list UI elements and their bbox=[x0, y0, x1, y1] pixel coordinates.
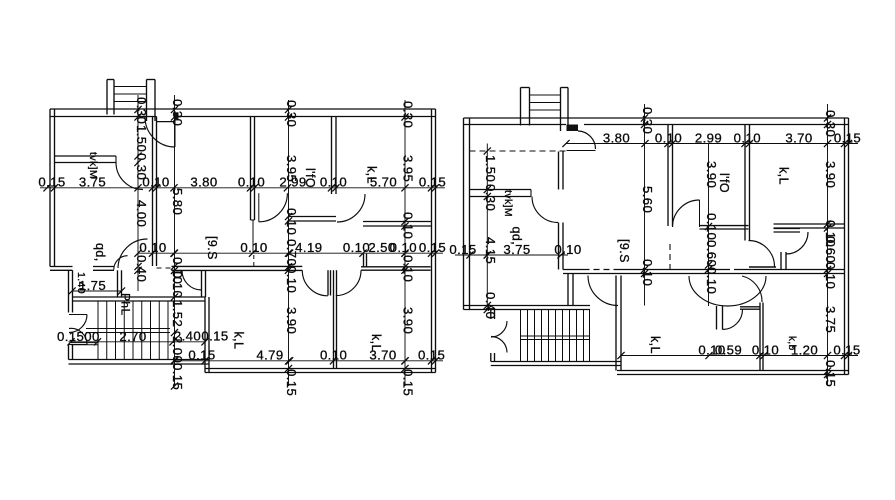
svg-text:0.40: 0.40 bbox=[134, 255, 149, 282]
right plan kL room door arc bbox=[588, 276, 618, 306]
right plan door jamb below stair bbox=[567, 125, 579, 132]
right plan bottom dim row line bbox=[621, 355, 858, 357]
right plan outer top wall bbox=[464, 117, 849, 119]
svg-text:qd,: qd, bbox=[510, 227, 524, 246]
left plan corridor top wall mid bbox=[289, 216, 337, 218]
svg-text:0.60: 0.60 bbox=[704, 240, 719, 267]
svg-text:3.70: 3.70 bbox=[785, 130, 812, 145]
svg-text:0.40: 0.40 bbox=[483, 292, 498, 319]
left plan bottom wall bbox=[205, 368, 436, 370]
svg-text:0.59: 0.59 bbox=[715, 342, 742, 357]
right plan dim col x=708 ticks bbox=[705, 223, 712, 230]
svg-text:0.30: 0.30 bbox=[483, 184, 498, 211]
right plan lfO door arc and leaf bbox=[749, 241, 775, 267]
right plan roof stair left post bbox=[520, 88, 522, 126]
svg-text:1.50: 1.50 bbox=[483, 155, 498, 182]
right plan entry french door upper arc bbox=[491, 321, 507, 337]
left plan hall-stair connector wall upper bbox=[201, 271, 203, 298]
svg-text:5.60: 5.60 bbox=[640, 186, 655, 213]
left plan single wall line x=253 bbox=[252, 220, 254, 253]
right plan bottom dim row ticks bbox=[617, 352, 624, 359]
left plan outer top wall bbox=[50, 108, 436, 110]
svg-text:0.10: 0.10 bbox=[704, 267, 719, 294]
left plan qd room door arc bbox=[114, 256, 128, 270]
left plan dim col x=288 line bbox=[288, 100, 290, 386]
svg-text:k,L: k,L bbox=[369, 334, 383, 352]
svg-text:0.70: 0.70 bbox=[284, 239, 299, 266]
right plan niche door arc bbox=[786, 232, 808, 254]
svg-text:0.10: 0.10 bbox=[238, 175, 265, 190]
right plan corridor wall upper line segments bbox=[563, 269, 584, 271]
right plan corridor dashed opening left bbox=[584, 269, 616, 271]
right plan entry french door lower arc bbox=[491, 337, 507, 353]
left plan dim col x=174 line bbox=[174, 95, 176, 386]
right plan interior wall x=670 bbox=[667, 125, 669, 227]
svg-text:0.1500: 0.1500 bbox=[57, 329, 100, 344]
svg-text:[9.S: [9.S bbox=[617, 239, 631, 263]
left plan stair dim row ticks bbox=[67, 338, 74, 345]
svg-text:3.95: 3.95 bbox=[284, 155, 299, 182]
left plan entry french door lower leaf arc bbox=[69, 344, 87, 346]
svg-text:tvk]M: tvk]M bbox=[87, 152, 99, 179]
svg-text:tvk]M: tvk]M bbox=[502, 190, 514, 217]
svg-text:5.80: 5.80 bbox=[170, 188, 185, 215]
left plan closet duct lines bbox=[363, 254, 365, 267]
right plan top dim row ticks bbox=[562, 140, 569, 147]
svg-text:1.52: 1.52 bbox=[170, 300, 185, 327]
left plan corridor bottom wall segments bbox=[172, 265, 303, 267]
left plan interior wall x=334 upper bbox=[331, 117, 333, 195]
svg-text:0.10: 0.10 bbox=[401, 212, 416, 239]
right plan dashed balcony line bbox=[470, 150, 567, 152]
right plan big double door arc bbox=[689, 276, 766, 306]
svg-text:0.10: 0.10 bbox=[343, 240, 370, 255]
right plan dim col x=708 line bbox=[708, 144, 710, 307]
left plan dim col x=138 ticks bbox=[134, 106, 141, 113]
left plan interior wall x=252 bbox=[250, 117, 252, 221]
svg-text:1.40: 1.40 bbox=[75, 272, 87, 294]
right plan niche wall bbox=[774, 228, 801, 230]
right plan left dim row line bbox=[455, 254, 568, 256]
left plan stair hall bottom wall bbox=[69, 359, 210, 361]
svg-text:0.10: 0.10 bbox=[320, 175, 347, 190]
left plan corridor top wall right bbox=[363, 221, 432, 223]
right plan porch bottom wall bbox=[491, 361, 621, 363]
svg-text:0.15: 0.15 bbox=[823, 360, 838, 387]
right plan staircase right stringer bbox=[589, 310, 591, 362]
svg-text:0.10: 0.10 bbox=[554, 242, 581, 257]
left plan staircase mid rails bbox=[86, 328, 170, 330]
right plan kL-left connector wall bbox=[615, 276, 617, 371]
left plan dim row2 ticks bbox=[134, 250, 141, 257]
left plan double door left leaf bbox=[327, 270, 329, 295]
svg-text:3.95: 3.95 bbox=[401, 155, 416, 182]
left plan outer left wall bbox=[49, 109, 51, 267]
right plan left dim row ticks bbox=[466, 251, 473, 258]
left plan stair hall top wall bbox=[73, 296, 206, 298]
svg-text:0.10: 0.10 bbox=[704, 213, 719, 240]
svg-text:0.15: 0.15 bbox=[419, 175, 446, 190]
right plan porch left wall lower bbox=[490, 353, 492, 362]
svg-text:0.10: 0.10 bbox=[139, 240, 166, 255]
svg-text:0.15: 0.15 bbox=[833, 342, 860, 357]
right plan wall y=306 segment bbox=[740, 306, 760, 308]
right plan interior wall x=747 bbox=[744, 125, 746, 241]
left plan entry french door upper leaf arc bbox=[69, 314, 87, 316]
left plan dashed line x=253.8 bbox=[253, 255, 255, 266]
left plan stair dim row line bbox=[69, 341, 206, 343]
right plan staircase treads bbox=[520, 310, 522, 362]
svg-text:3.90: 3.90 bbox=[823, 161, 838, 188]
left plan dim col x=174 ticks bbox=[171, 106, 178, 113]
svg-text:0.10: 0.10 bbox=[655, 130, 682, 145]
right plan outer left wall bbox=[463, 118, 465, 310]
svg-text:qd,: qd, bbox=[93, 243, 107, 262]
left plan tvk room wall bbox=[55, 155, 117, 157]
svg-text:3.80: 3.80 bbox=[190, 175, 217, 190]
left plan corridor-hall door arc bbox=[118, 239, 148, 268]
left plan hall door arc bbox=[182, 270, 202, 290]
svg-text:2.99: 2.99 bbox=[695, 130, 722, 145]
right plan bottom rooms divider wall bbox=[759, 303, 761, 371]
svg-text:0.15: 0.15 bbox=[170, 363, 185, 390]
svg-text:4.00: 4.00 bbox=[134, 200, 149, 227]
left plan dim col x=138 line bbox=[137, 95, 139, 291]
right plan dim col x=487 ticks bbox=[484, 147, 491, 154]
left plan entrance door leaf and arc bbox=[174, 117, 176, 147]
svg-text:0.15: 0.15 bbox=[38, 175, 65, 190]
left plan bottom dim row line bbox=[174, 360, 443, 362]
left plan porch left wall lower bbox=[68, 345, 70, 360]
right plan staircase mid rails bbox=[521, 335, 590, 337]
right plan dim col x=644 ticks bbox=[641, 114, 648, 121]
left plan bottom dim row ticks bbox=[170, 357, 177, 364]
svg-text:[9.S: [9.S bbox=[205, 236, 219, 260]
left plan corridor dashed wall segment bbox=[157, 267, 172, 269]
svg-text:k,b: k,b bbox=[786, 336, 797, 351]
svg-text:0.30: 0.30 bbox=[284, 100, 299, 127]
right plan kL bottom wall right segment bbox=[774, 223, 845, 225]
left plan dim row 1.75 ticks bbox=[68, 287, 75, 294]
left plan dim row1 line bbox=[40, 187, 445, 189]
left plan tvk room door arc bbox=[116, 163, 143, 190]
right plan roof stair rungs bbox=[530, 94, 561, 96]
svg-text:0.10: 0.10 bbox=[320, 348, 347, 363]
svg-text:0.15: 0.15 bbox=[449, 242, 476, 257]
svg-text:0.15: 0.15 bbox=[418, 348, 445, 363]
right plan dim col x=487 line bbox=[486, 144, 488, 310]
svg-text:3.75: 3.75 bbox=[823, 306, 838, 333]
left plan hall-stair connector wall lower bbox=[204, 297, 206, 373]
left plan entrance door sill bbox=[157, 121, 176, 123]
svg-text:k,L: k,L bbox=[232, 332, 246, 350]
right plan dim col x=827 ticks bbox=[824, 114, 831, 121]
left plan staircase treads bbox=[97, 301, 99, 360]
svg-text:l'fO: l'fO bbox=[717, 173, 731, 193]
left plan outer right wall bbox=[431, 109, 433, 373]
svg-text:0.60: 0.60 bbox=[823, 236, 838, 263]
right plan corridor dashed opening right bbox=[724, 269, 740, 271]
svg-text:0.15: 0.15 bbox=[401, 369, 416, 396]
left plan roof stair left post bbox=[106, 80, 108, 115]
left plan dim row 1.75 line bbox=[72, 290, 122, 292]
svg-text:0.10: 0.10 bbox=[284, 208, 299, 235]
svg-text:1.50: 1.50 bbox=[134, 125, 149, 152]
svg-text:4.79: 4.79 bbox=[256, 348, 283, 363]
svg-text:0.15: 0.15 bbox=[188, 348, 215, 363]
svg-text:0.30: 0.30 bbox=[170, 99, 185, 126]
svg-text:0.15: 0.15 bbox=[284, 369, 299, 396]
svg-text:0.10: 0.10 bbox=[401, 255, 416, 282]
svg-text:0.10: 0.10 bbox=[240, 240, 267, 255]
svg-text:3.90: 3.90 bbox=[401, 307, 416, 334]
svg-text:0.10: 0.10 bbox=[752, 342, 779, 357]
right plan dim col x=827 line bbox=[827, 104, 829, 386]
left plan entrance door jamb bbox=[174, 112, 178, 119]
svg-text:k,L: k,L bbox=[648, 336, 662, 354]
svg-text:l'fO: l'fO bbox=[303, 168, 317, 188]
right plan corridor wall lower line bbox=[563, 273, 845, 275]
right plan wall x=783 bbox=[780, 252, 782, 270]
svg-text:3.90: 3.90 bbox=[704, 161, 719, 188]
right plan extra door arc below corridor bbox=[742, 276, 762, 302]
svg-text:2.00: 2.00 bbox=[170, 336, 185, 363]
svg-text:0.10: 0.10 bbox=[390, 240, 417, 255]
svg-text:2.70: 2.70 bbox=[119, 329, 146, 344]
right plan door arc at stub bbox=[723, 310, 743, 330]
left plan dim col x=405 ticks bbox=[401, 113, 408, 120]
svg-text:0.30: 0.30 bbox=[134, 97, 149, 124]
svg-text:0.30: 0.30 bbox=[401, 101, 416, 128]
right plan dashed wall x=670 lower bbox=[669, 244, 671, 270]
right plan bottom wall bbox=[617, 370, 849, 372]
svg-text:PhL: PhL bbox=[119, 293, 133, 316]
right plan stair-bottom wall bbox=[464, 305, 591, 307]
right plan dim col x=644 line bbox=[644, 104, 646, 306]
svg-text:0.15: 0.15 bbox=[419, 240, 446, 255]
svg-text:0.30: 0.30 bbox=[640, 107, 655, 134]
svg-text:0.10: 0.10 bbox=[170, 271, 185, 298]
left plan dim col x=405 line bbox=[404, 100, 406, 386]
svg-text:0.15: 0.15 bbox=[201, 329, 228, 344]
svg-text:0.30: 0.30 bbox=[823, 110, 838, 137]
right plan top dim row line bbox=[566, 143, 858, 145]
right plan tvk room door arc bbox=[532, 197, 558, 223]
left plan door arc at wall x=334 bbox=[337, 194, 365, 222]
left plan dim row2 line bbox=[138, 252, 443, 254]
right plan outer right wall bbox=[844, 118, 846, 375]
left plan interior wall x=154 bbox=[152, 117, 154, 267]
left plan dim col x=288 ticks bbox=[285, 106, 292, 113]
right plan porch left wall upper bbox=[490, 310, 492, 320]
right plan tvk room right wall lower bbox=[558, 223, 560, 270]
left plan hall divider wall bbox=[117, 270, 119, 297]
left plan entry threshold step bbox=[71, 342, 98, 344]
svg-text:0.10: 0.10 bbox=[823, 262, 838, 289]
svg-text:3.90: 3.90 bbox=[284, 307, 299, 334]
right plan tvk room south wall bbox=[470, 189, 532, 191]
svg-text:3.80: 3.80 bbox=[603, 130, 630, 145]
svg-text:k,L: k,L bbox=[777, 167, 791, 185]
svg-text:0.10: 0.10 bbox=[734, 130, 761, 145]
left plan room door leaf and arc at x=259 bbox=[258, 193, 260, 222]
left plan qd room bottom wall with window gap bbox=[50, 266, 73, 268]
svg-text:k,L: k,L bbox=[365, 166, 379, 184]
right plan kL bottom wall left segment bbox=[700, 225, 749, 227]
left plan roof stair right post bbox=[146, 80, 148, 122]
svg-text:0.10: 0.10 bbox=[284, 266, 299, 293]
svg-text:4.15: 4.15 bbox=[483, 237, 498, 264]
right plan stair door arc bbox=[578, 131, 596, 149]
right plan roof stair right post bbox=[560, 88, 562, 132]
right plan wall stub x=719 bbox=[716, 306, 718, 330]
svg-text:0.10: 0.10 bbox=[640, 259, 655, 286]
left plan roof stair rungs bbox=[114, 86, 147, 88]
svg-text:0.30: 0.30 bbox=[134, 153, 149, 180]
left plan dim row1 ticks bbox=[43, 184, 50, 191]
right plan tvk room right wall upper bbox=[558, 152, 560, 190]
right plan door arc at kL wall bbox=[673, 200, 700, 227]
right plan wall x=570 below corridor bbox=[567, 274, 569, 306]
left plan porch left wall upper bbox=[68, 270, 70, 312]
right plan door leaf at kL wall bbox=[699, 200, 701, 227]
left plan bottom rooms divider wall bbox=[333, 270, 335, 368]
right plan stair door leaf bbox=[567, 150, 596, 152]
left plan double door arcs bbox=[302, 270, 328, 296]
